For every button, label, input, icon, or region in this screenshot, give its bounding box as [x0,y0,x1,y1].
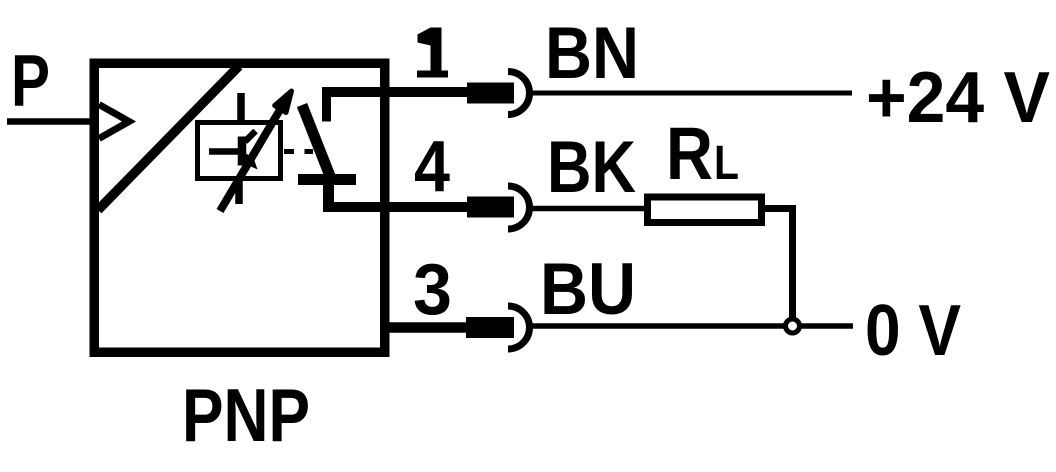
svg-text:L: L [714,137,739,190]
transducer bottom lead [235,179,243,204]
svg-text:PNP: PNP [182,373,310,457]
plug connector pin 1 socket arc [508,72,530,115]
transducer element box [198,123,281,179]
plug connector pin 4 socket arc [508,186,530,229]
pressure input wire P [7,118,94,125]
svg-text:BN: BN [545,13,639,94]
label BU [540,249,636,330]
net 0 V [865,291,961,371]
svg-text:+24 V: +24 V [866,58,1050,138]
label pin 4 [414,127,450,207]
net +24 V [866,58,1050,138]
wire BU [531,323,785,329]
transistor Q1 emitter with arrow [245,156,258,170]
sensor body U1 outline [94,63,385,352]
transistor Q1 collector [245,131,256,142]
switch S1 upper contact hook [322,92,331,122]
adjustability arrow [220,91,292,211]
sensor body diagonal separator [98,66,239,210]
svg-text:4: 4 [414,127,450,207]
plug connector pin 3 socket arc [508,306,529,349]
wire BN [531,91,852,96]
plug connector pin 4 crimp [467,197,514,218]
wire pin 4 stub [323,202,468,212]
switch S1 lower contact drop [323,180,334,208]
transducer top lead [237,93,245,122]
svg-text:R: R [666,112,713,195]
wire BK [531,206,648,212]
label BN [545,13,639,94]
plug connector pin 3 crimp [466,317,514,338]
mechanical link dashed segment 1 [284,149,294,154]
switch S1 lower contact T-bar [298,174,356,185]
resistor RL [648,197,762,223]
svg-text:BK: BK [547,127,636,208]
label pin 3 [413,250,452,330]
mechanical link dashed segment 2 [305,149,314,154]
label PNP [182,373,310,457]
svg-text:P: P [11,41,50,122]
svg-text:3: 3 [413,250,452,330]
label RL subscript L [714,137,739,190]
label pin 1 [417,28,448,78]
wire resistor to corner and down to node [765,209,793,320]
plug connector pin 1 crimp [467,83,514,104]
wire node to 0 V [800,323,853,329]
wire pin 1 stub [322,87,468,97]
transistor Q1 base lead [209,148,240,155]
node junction circle [786,319,800,333]
svg-text:0 V: 0 V [865,291,961,371]
label P [11,41,50,122]
transistor Q1 base bar [238,137,247,166]
switch S1 lever [302,105,330,176]
label RL value R [666,112,713,195]
pressure input arrow chevron [99,105,129,139]
label BK [547,127,636,208]
wire pin 3 stub [384,322,468,333]
svg-text:BU: BU [540,249,636,330]
